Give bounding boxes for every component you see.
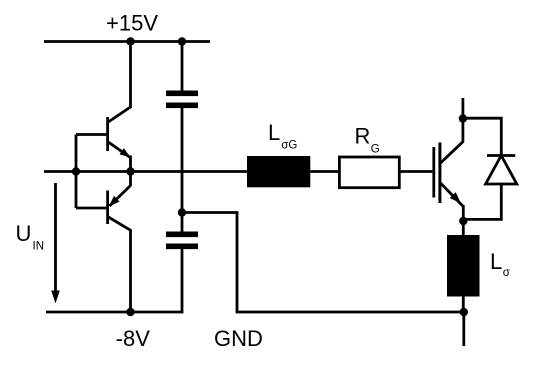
svg-text:σG: σG bbox=[281, 140, 297, 152]
label L_sigmaG bbox=[268, 120, 297, 152]
node: junction collector / freewheeling diode top bbox=[459, 114, 467, 122]
wire: base coupling vertical (Q1 base to Q2 base) bbox=[75, 135, 78, 209]
inductor L_sigmaG (gate stray inductance, filled block) bbox=[247, 156, 310, 187]
node: junction C1/C2 midpoint to GND tap bbox=[178, 208, 186, 216]
transistor Q2 (PNP, lower push-pull) bbox=[106, 172, 131, 231]
resistor R_G (gate resistor) bbox=[339, 157, 399, 188]
label L_sigma bbox=[490, 249, 510, 279]
node: junction input wire / base coupling bbox=[72, 167, 80, 175]
svg-text:σ: σ bbox=[503, 267, 510, 279]
wire: R_G to IGBT gate bbox=[399, 170, 432, 173]
wire: IGBT collector stub (open end at top) bbox=[461, 98, 464, 142]
svg-text:IN: IN bbox=[33, 241, 45, 253]
svg-text:L: L bbox=[268, 120, 280, 145]
wire: Q1 emitter to output node bbox=[129, 156, 132, 172]
wire: IGBT emitter down to L_sigma bbox=[462, 205, 465, 236]
capacitor C2 (lower decoupling) bbox=[166, 213, 198, 314]
label U_IN input voltage bbox=[16, 221, 45, 253]
svg-text:R: R bbox=[355, 124, 371, 149]
wire: Q2 collector to -8V rail bbox=[129, 230, 132, 313]
node: junction +15V rail / C1 bbox=[178, 37, 186, 45]
wire: input / output horizontal rail at mid level bbox=[44, 170, 248, 173]
wire: +15V top rail bbox=[44, 40, 210, 43]
svg-text:+15V: +15V bbox=[106, 11, 158, 36]
wire: collector node to diode cathode branch bbox=[463, 118, 501, 156]
node: junction -8V rail / Q2 collector bbox=[126, 308, 134, 316]
wire: L_sigmaG to R_G bbox=[310, 170, 340, 173]
node: junction +15V rail / Q1 collector bbox=[126, 37, 134, 45]
wire: L_sigma bottom to GND node bbox=[462, 296, 465, 312]
node: junction L_sigma / GND run / emitter stub bbox=[460, 308, 468, 316]
svg-text:-8V: -8V bbox=[116, 326, 151, 351]
svg-text:U: U bbox=[16, 221, 32, 246]
wire: GND run (cap midpoint to L_sigma bottom) bbox=[182, 213, 464, 313]
label R_G bbox=[355, 124, 380, 156]
svg-text:L: L bbox=[490, 249, 502, 274]
diode D1 (freewheeling, pointing up) bbox=[486, 156, 517, 185]
inductor L_sigma (emitter stray inductance, filled block) bbox=[447, 235, 480, 297]
node: output node of push-pull stage bbox=[126, 167, 134, 175]
wire: -8V bottom rail bbox=[46, 311, 183, 314]
transistor Q1 (NPN, upper push-pull) bbox=[106, 107, 131, 158]
svg-text:G: G bbox=[371, 143, 380, 155]
wire: Q2 base lead bbox=[76, 207, 107, 210]
arrow: U_IN direction bbox=[51, 183, 60, 304]
wire: Q1 base lead bbox=[76, 133, 107, 136]
wire: diode anode back to emitter node bbox=[463, 184, 501, 219]
wire: Q1 collector to +15V rail bbox=[129, 42, 132, 109]
svg-text:GND: GND bbox=[214, 326, 263, 351]
transistor Q3 (IGBT) bbox=[432, 141, 463, 206]
capacitor C1 (upper decoupling) bbox=[166, 42, 198, 213]
node: junction emitter / diode anode / L_sigma top bbox=[459, 217, 467, 225]
wire: emitter output stub (open end at bottom) bbox=[462, 312, 465, 346]
